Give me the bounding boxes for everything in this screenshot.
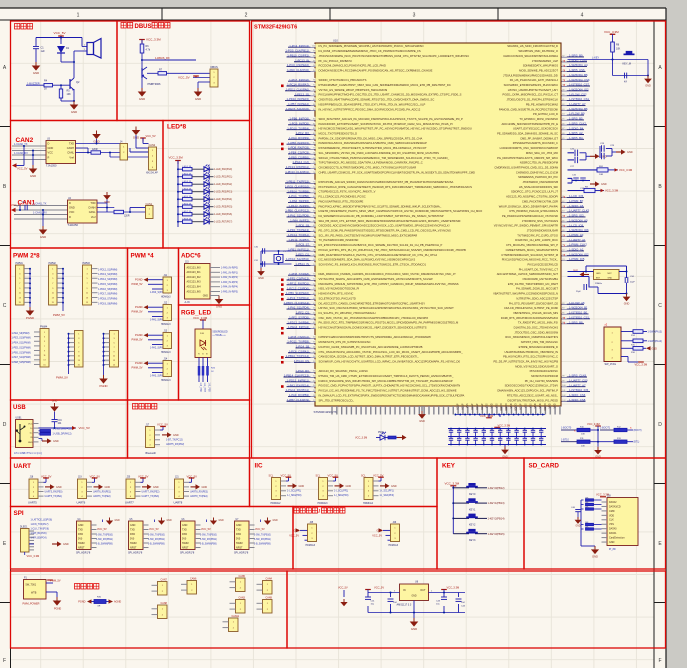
svg-text:RTSJTDI_ADC123I2C_USART_HS_NSS: RTSJTDI_ADC123I2C_USART_HS_NSS_ — [507, 393, 559, 397]
ground bt + labels — [162, 432, 184, 446]
svg-text:1-PC6_CS(PA1): 1-PC6_CS(PA1) — [289, 349, 309, 353]
svg-text:DATA0: DATA0 — [609, 528, 617, 531]
svg-text:D1RCC_NSSLCDPE_NSS_WKUP/JTDID1: D1RCC_NSSLCDPE_NSS_WKUP/JTDID1_SPI_MCO1L… — [319, 379, 453, 383]
svg-text:HDMI1x3: HDMI1x3 — [161, 297, 171, 299]
svg-text:PGND: PGND — [135, 305, 143, 309]
UART group 4: connector + labels — [174, 474, 209, 504]
svg-text:PWM_5V: PWM_5V — [132, 282, 143, 286]
svg-text:C: C — [3, 303, 7, 309]
svg-text:RXD: RXD — [182, 533, 187, 536]
svg-text:1-PE15_S11(PG5): 1-PE15_S11(PG5) — [286, 107, 309, 111]
svg-text:1-SPI_B0(PG4): 1-SPI_B0(PG4) — [31, 538, 47, 540]
svg-text:1-SDIO_CS8: 1-SDIO_CS8 — [569, 398, 586, 402]
svg-text:1-BUZZER: 1-BUZZER — [27, 81, 40, 85]
svg-text:1-SW_TX(PB10): 1-SW_TX(PB10) — [148, 534, 165, 536]
power PWM_5V botleft — [46, 580, 61, 583]
svg-text:CMD_PF_INVBAT_D0DMA_ET: CMD_PF_INVBAT_D0DMA_ET — [520, 136, 558, 140]
PWM*4 group 2: labels + connector — [132, 303, 172, 327]
svg-text:HS/HSYNCPA_RTS_VSYNC: HS/HSYNCPA_RTS_VSYNC — [319, 292, 354, 296]
svg-text:SWIM: SWIM — [182, 542, 189, 545]
IC power entry module — [23, 578, 47, 606]
svg-text:22pF: 22pF — [630, 282, 635, 284]
svg-text:STM32F429IGT6: STM32F429IGT6 — [254, 25, 297, 31]
svg-text:TXPC/TIM/HSCK_PG_MISOD2_SDA/TX: TXPC/TIM/HSCK_PG_MISOD2_SDA/TXPA_ULPI/DM… — [319, 161, 423, 165]
capacitor C44 — [456, 599, 466, 608]
svg-text:SPI: SPI — [14, 510, 24, 517]
svg-text:Bluetooth: Bluetooth — [146, 452, 157, 455]
svg-text:47: 47 — [562, 128, 564, 130]
section title single-point-connect (CJK) — [75, 584, 99, 590]
svg-text:1-PA1_S11(PD9): 1-PA1_S11(PD9) — [288, 214, 309, 218]
svg-text:1-PF10_S12(PD2): 1-PF10_S12(PD2) — [286, 257, 309, 261]
power VCC_5V can2 — [12, 161, 28, 171]
svg-text:57: 57 — [313, 254, 315, 256]
button KEY_M reset — [623, 51, 635, 66]
svg-text:10K: 10K — [616, 48, 621, 51]
svg-text:1-SDIO_CS6: 1-SDIO_CS6 — [569, 393, 586, 397]
svg-text:1-G_PB7: 1-G_PB7 — [203, 383, 205, 393]
svg-text:PWM *4: PWM *4 — [131, 253, 155, 260]
svg-text:1-PE7_S14(PWM): 1-PE7_S14(PWM) — [12, 357, 31, 359]
svg-text:53: 53 — [313, 274, 315, 276]
svg-text:D: D — [658, 422, 662, 428]
svg-text:1-PD10_IN(PE15): 1-PD10_IN(PE15) — [286, 97, 309, 101]
svg-text:VCC_5V: VCC_5V — [149, 528, 159, 531]
svg-text:99: 99 — [562, 380, 564, 382]
section box led8 — [163, 121, 250, 249]
power VCC_3.3M dbus — [139, 38, 161, 44]
svg-text:27: 27 — [313, 400, 315, 402]
svg-text:IN_HSYNC_NJTRST/PFRCC_PE/OSC_D: IN_HSYNC_NJTRST/PFRCC_PE/OSC_DMA_SCKFMC/… — [319, 107, 421, 111]
svg-text:ADC123_IN5: ADC123_IN5 — [187, 290, 202, 293]
svg-text:VCC_5V: VCC_5V — [17, 167, 28, 171]
svg-text:JTDI/ULPISDNWEWKUPMCO1SDANSS_D: JTDI/ULPISDNWEWKUPMCO1SDANSS_D3/ — [503, 73, 558, 77]
svg-text:VSS: VSS — [487, 403, 489, 408]
svg-text:PGND: PGND — [99, 384, 107, 388]
svg-text:GND: GND — [30, 174, 36, 178]
resistor can2 120R — [91, 149, 101, 154]
svg-text:1-LED_PE1(PG1): 1-LED_PE1(PG1) — [214, 177, 232, 179]
svg-text:VCC_5V: VCC_5V — [289, 534, 299, 537]
svg-text:1-PC12_CS(PD0): 1-PC12_CS(PD0) — [287, 286, 309, 290]
svg-text:VCAP: VCAP — [461, 403, 464, 410]
svg-text:89: 89 — [313, 99, 315, 101]
svg-text:CTS/PEADC123_FSTX_VSYNCPC_PAEX: CTS/PEADC123_FSTX_VSYNCPC_PAEXTI_V — [319, 190, 376, 194]
svg-text:CHPD_USARTLCD/MCO1_PF_SCK_USAR: CHPD_USARTLCD/MCO1_PF_SCK_USARTSWDIOPC/P… — [319, 170, 476, 174]
svg-text:32: 32 — [562, 55, 564, 57]
svg-text:PWM_5V: PWM_5V — [132, 366, 143, 370]
svg-text:CK/LCD_PB/CHFSOSC_NJTRST_PE_DC: CK/LCD_PB/CHFSOSC_NJTRST_PE_DCMI — [504, 306, 558, 310]
svg-text:74: 74 — [313, 172, 315, 174]
resistor can1 120R — [114, 210, 130, 217]
power VCC_5V regulator — [365, 585, 384, 592]
svg-text:1-SW_TX(PB10): 1-SW_TX(PB10) — [200, 534, 217, 536]
svg-text:59: 59 — [313, 245, 315, 247]
wire buzzer top rail — [36, 36, 82, 47]
svg-text:HDMI4x4: HDMI4x4 — [363, 502, 374, 505]
svg-text:49: 49 — [313, 293, 315, 295]
wires CAN1 left — [14, 206, 68, 227]
svg-text:ADC*6: ADC*6 — [181, 253, 201, 260]
svg-text:PWM_5V: PWM_5V — [132, 338, 143, 342]
svg-text:OUT: OUT — [420, 589, 426, 592]
svg-text:1-PA0_IN-R(P0): 1-PA0_IN-R(P0) — [221, 267, 238, 270]
svg-text:1-USB_DM(PA11): 1-USB_DM(PA11) — [53, 428, 72, 431]
power VCC_3.3M rgb — [193, 316, 208, 329]
svg-text:1-PC13_IN: 1-PC13_IN — [295, 58, 309, 62]
svg-text:HDMI1x3: HDMI1x3 — [389, 545, 399, 547]
svg-text:GND: GND — [195, 97, 201, 101]
svg-text:SCL: SCL — [361, 474, 366, 477]
svg-text:PB_PE_HSWKUPDCMINJ: PB_PE_HSWKUPDCMINJ — [526, 102, 559, 106]
svg-text:PWR: PWR — [378, 432, 384, 434]
svg-text:37: 37 — [313, 351, 315, 353]
svg-text:GND: GND — [167, 520, 172, 522]
ground MCU bottom-left — [418, 406, 426, 423]
svg-text:HSYNC_SCK_OSC/SCKJTDID0_SPISCK: HSYNC_SCK_OSC/SCKJTDID0_SPISCKADC123PD/S… — [319, 306, 455, 310]
svg-text:KEY_M: KEY_M — [623, 63, 631, 66]
svg-text:1-FLOW_A5: 1-FLOW_A5 — [569, 301, 585, 305]
svg-text:PH_USART_D0_TX/VSYNC_CT: PH_USART_D0_TX/VSYNC_CT — [519, 267, 559, 271]
svg-text:PGND: PGND — [26, 316, 34, 320]
wires CAN1 right — [97, 199, 146, 214]
svg-text:PFCTSSWCLK_RXPE_CANULPI/ETREXT: PFCTSSWCLK_RXPE_CANULPI/ETREXTI_PE/DCMI_… — [319, 185, 473, 189]
svg-text:TXD: TXD — [182, 528, 187, 531]
svg-text:1-PB0_CS(PE6): 1-PB0_CS(PE6) — [289, 155, 309, 159]
power VCC_3.3M spi — [25, 552, 39, 558]
svg-text:GND: GND — [502, 455, 508, 458]
svg-text:CMD_PACKTIM/CK/TIM_D2R: CMD_PACKTIM/CK/TIM_D2R — [522, 199, 558, 203]
svg-text:78: 78 — [313, 152, 315, 154]
svg-text:A-IN: A-IN — [185, 301, 190, 304]
svg-text:95: 95 — [313, 70, 315, 72]
svg-text:SCL: SCL — [316, 474, 321, 477]
svg-text:2: 2 — [245, 13, 248, 19]
svg-text:VCC_5V: VCC_5V — [97, 528, 107, 531]
svg-text:1-LED_PA4(PG4): 1-LED_PA4(PG4) — [214, 198, 232, 201]
svg-text:68: 68 — [313, 201, 315, 203]
SPI group 3: IC + labels — [180, 518, 224, 555]
svg-text:48: 48 — [562, 133, 564, 135]
svg-text:1-FLOW_B9: 1-FLOW_B9 — [569, 112, 585, 116]
svg-text:GND: GND — [153, 486, 159, 489]
svg-text:HDMI1x3: HDMI1x3 — [161, 380, 171, 382]
svg-text:76: 76 — [313, 162, 315, 164]
connector CAN1 header — [146, 203, 154, 219]
svg-text:1-LED_PE3(PG3): 1-LED_PE3(PG3) — [214, 192, 232, 194]
svg-text:1-PD10_TX(PE4): 1-PD10_TX(PE4) — [287, 126, 309, 130]
svg-text:10K: 10K — [581, 434, 585, 436]
svg-text:83: 83 — [562, 303, 564, 305]
svg-text:TX_RXEXTIPC_MCO1_ININ_FS/: TX_RXEXTIPC_MCO1_ININ_FS/ — [518, 321, 558, 325]
svg-text:84: 84 — [313, 123, 315, 125]
ground can1 left — [39, 226, 48, 239]
svg-text:1-SPI5_A2: 1-SPI5_A2 — [569, 131, 583, 135]
svg-text:SDNWESDATX_WKUP/MOS: SDNWESDATX_WKUP/MOS — [523, 64, 558, 68]
svg-text:UART5_RX(PE0): UART5_RX(PE0) — [45, 491, 63, 494]
SPI group 4: IC + labels — [234, 518, 278, 555]
resistors rgb x3 — [198, 358, 216, 383]
svg-text:1-PWM_CLK2: 1-PWM_CLK2 — [569, 243, 587, 247]
LED row 4 (resistor + LED D4) — [177, 195, 232, 202]
svg-text:1-PA3_IN-R(P3): 1-PA3_IN-R(P3) — [221, 281, 238, 284]
wires CAN2 left — [12, 145, 46, 161]
svg-text:GND: GND — [78, 524, 84, 527]
svg-text:VDD: VDD — [540, 403, 542, 408]
svg-text:PB_HSYNC/RX_RTS_SCLCTSSPIVSYNC: PB_HSYNC/RX_RTS_SCLCTSSPIVSYNC_C — [503, 355, 558, 359]
section box buzzer — [11, 21, 118, 121]
svg-text:1-IST8310_IO5: 1-IST8310_IO5 — [569, 388, 589, 392]
svg-text:GND: GND — [33, 71, 39, 75]
svg-text:1-BT_TX(PC12): 1-BT_TX(PC12) — [166, 440, 183, 442]
svg-text:5V0: 5V0 — [182, 537, 187, 540]
svg-text:CANL: CANL — [89, 210, 96, 214]
svg-text:RXD: RXD — [130, 533, 135, 536]
svg-text:1-PD11_CLK(PA0): 1-PD11_CLK(PA0) — [286, 87, 309, 91]
section box usb — [11, 400, 128, 458]
svg-text:PIXCLK_EXTIPG_RTS_PH_PC_WKUP/C: PIXCLK_EXTIPG_RTS_PH_PC_WKUP/CAN_TIM_JTD… — [319, 248, 467, 252]
svg-text:GND: GND — [105, 486, 111, 489]
section title: DJI DBUS remote (CJK+latin) — [121, 23, 133, 29]
svg-text:TXD: TXD — [130, 528, 135, 531]
svg-text:MCO1_TXOTGPESDIO/JTDI_D: MCO1_TXOTGPESDIO/JTDI_D — [319, 132, 358, 136]
svg-text:VSYNC/JTDI_SDAPG_ADC123RTS_CMD: VSYNC/JTDI_SDAPG_ADC123RTS_CMD_HS/PGDMAR… — [319, 277, 434, 281]
svg-text:1-SDIO_A6: 1-SDIO_A6 — [569, 204, 584, 208]
section box adc6 — [179, 248, 250, 305]
svg-text:MISO_SDA_CK_JTDI_MO: MISO_SDA_CK_JTDI_MO — [526, 151, 558, 155]
connector CAN8 terminal — [152, 602, 168, 618]
svg-text:F: F — [3, 658, 6, 664]
svg-text:1-PA4_IN-R(P4): 1-PA4_IN-R(P4) — [221, 286, 238, 289]
svg-text:5050RGBLED: 5050RGBLED — [213, 331, 228, 334]
svg-text:PASDIOSCL/MCO1_FMC/SDA/PH/PA/S: PASDIOSCL/MCO1_FMC/SDA/PH/PA/SWCLK/VBATP… — [319, 141, 427, 145]
svg-text:TJA1050: TJA1050 — [46, 164, 57, 168]
ground can2 right — [132, 127, 141, 140]
svg-text:PGND: PGND — [135, 361, 143, 365]
svg-text:1-PE4_CS(PC9): 1-PE4_CS(PC9) — [288, 151, 309, 155]
svg-text:1-SDIO_CLK6: 1-SDIO_CLK6 — [569, 58, 587, 62]
ground can2 mid — [92, 131, 101, 144]
svg-text:TXD: TXD — [69, 141, 74, 145]
svg-text:5V0: 5V0 — [78, 537, 83, 540]
UART group 1: connector + labels — [28, 474, 63, 504]
svg-text:1-SW_RX(PB11): 1-SW_RX(PB11) — [200, 539, 217, 541]
svg-text:GND: GND — [236, 524, 242, 527]
MCU bottom vertical pin names — [457, 403, 557, 411]
svg-text:IP_8D: IP_8D — [609, 548, 616, 551]
svg-text:UART5_RX(PD2): UART5_RX(PD2) — [166, 443, 184, 446]
svg-text:72: 72 — [562, 249, 564, 251]
IC RGB LED module D10 — [195, 329, 211, 358]
svg-text:120R: 120R — [124, 216, 130, 218]
svg-text:KEY0: KEY0 — [469, 493, 476, 496]
svg-text:33: 33 — [313, 371, 315, 373]
wires CAN2 right — [76, 139, 149, 157]
svg-text:PWM1: PWM1 — [16, 262, 24, 265]
svg-text:UART7_RX(PE2): UART7_RX(PE2) — [142, 491, 160, 494]
svg-text:RCCDCMI_DMASCLSCLPGHSYNCPD_PE_: RCCDCMI_DMASCLSCLPGHSYNCPD_PE_LCD_PH/D — [319, 64, 387, 68]
power VCC_3.3M regulator — [441, 585, 459, 592]
MCU right pin names (interior) — [493, 44, 559, 402]
section box iic — [250, 458, 438, 507]
svg-text:50: 50 — [313, 288, 315, 290]
ground usb shield — [39, 438, 59, 443]
svg-text:VCC_5V: VCC_5V — [372, 534, 382, 537]
svg-text:1-LCD_IO5: 1-LCD_IO5 — [569, 194, 584, 198]
svg-text:ADC123_IN4: ADC123_IN4 — [187, 286, 202, 289]
svg-text:HDMI4x2: HDMI4x2 — [271, 502, 282, 505]
svg-text:1-PA4_IN(PF2): 1-PA4_IN(PF2) — [290, 218, 309, 222]
svg-text:VBATETRSCL_OSCHS_I2C/HS_MIS: VBATETRSCL_OSCHS_I2C/HS_MIS — [513, 311, 558, 315]
svg-text:3: 3 — [413, 13, 416, 19]
section box rgb — [179, 305, 250, 400]
svg-text:1-PA12_IN(PF5): 1-PA12_IN(PF5) — [289, 204, 310, 208]
svg-text:Vref: Vref — [69, 155, 74, 159]
ground reset — [644, 75, 652, 88]
MCU right no-ERC marks — [564, 59, 566, 325]
svg-text:GND: GND — [182, 524, 188, 527]
ground usb top + capacitor C16 — [50, 400, 62, 429]
svg-text:1-PD13_S2(PWM): 1-PD13_S2(PWM) — [98, 274, 118, 276]
svg-text:UART7_TX(PE3): UART7_TX(PE3) — [142, 495, 160, 498]
svg-text:PH_OTG_PE/USART_D0/OSCVBAT_D2: PH_OTG_PE/USART_D0/OSCVBAT_D2 — [509, 301, 559, 305]
power VCC_3.3M key — [445, 482, 460, 534]
svg-text:D1_DCMI_OTGSDNWE/DMADMA/MISO_J: D1_DCMI_OTGSDNWE/DMADMA/MISO_JTDO_CK_PFM… — [319, 49, 421, 53]
svg-text:1-PB11_TX(PF15): 1-PB11_TX(PF15) — [286, 180, 309, 184]
svg-text:1-PC14_RX(PA7): 1-PC14_RX(PA7) — [287, 83, 309, 87]
svg-text:PD_OTG_DCMI_PB_PANSS/PGNSSTXD2: PD_OTG_DCMI_PB_PANSS/PGNSSTXD2/D2_RTS/DC… — [319, 229, 451, 233]
svg-text:UART8_TX(PE4): UART8_TX(PE4) — [190, 495, 208, 498]
connector CAN3 terminal — [230, 597, 246, 613]
IC U4 TJA1050 can1 — [68, 198, 98, 227]
svg-text:93: 93 — [313, 80, 315, 82]
svg-text:85: 85 — [313, 118, 315, 120]
svg-text:1-PE3_S10(PWM): 1-PE3_S10(PWM) — [12, 338, 31, 340]
svg-text:KEY3: KEY3 — [469, 539, 476, 542]
svg-text:1-SWC(PA14): 1-SWC(PA14) — [648, 340, 663, 343]
svg-text:1-IST8310_CS1: 1-IST8310_CS1 — [569, 315, 590, 319]
svg-text:62: 62 — [313, 230, 315, 232]
LED row 5 (resistor + LED D5) — [177, 202, 232, 209]
svg-text:SCKVSYNC_FS_IN/SWCLKCH_RX/D3NS: SCKVSYNC_FS_IN/SWCLKCH_RX/D3NSS_RX/CTS/M… — [319, 262, 427, 266]
svg-text:1-PA3_RX(PE14): 1-PA3_RX(PE14) — [287, 383, 309, 387]
svg-text:FS_PC_SDNWEPE_PFSDNWE_WKUPPH_H: FS_PC_SDNWEPE_PFSDNWE_WKUPPH_HSYNCPDD2PD… — [319, 44, 424, 48]
svg-text:77: 77 — [313, 157, 315, 159]
IC U8 AMS1117-3.3 — [397, 580, 429, 606]
svg-text:R: R — [48, 155, 50, 159]
resistor R5 10K — [59, 85, 74, 101]
svg-text:HSYNC_HS/WKUPRTSCTSUSART_HSY: HSYNC_HS/WKUPRTSCTSUSART_HSY — [508, 88, 558, 92]
svg-text:PIXCLK/D1FMC/CAN_MISO/HS_RCC_T: PIXCLK/D1FMC/CAN_MISO/HS_RCC_TXCK_ — [502, 258, 559, 262]
svg-text:□□*RGB□□□: □□*RGB□□□ — [213, 334, 227, 337]
IIC group 2: connector + labels — [316, 473, 352, 504]
svg-text:52: 52 — [313, 279, 315, 281]
ground vcap — [590, 154, 607, 159]
svg-text:D1HSTIM_D0_OSC_JTDIHSYNCHS: D1HSTIM_D0_OSC_JTDIHSYNCHS — [514, 326, 559, 330]
svg-text:72: 72 — [313, 182, 315, 184]
svg-text:GND: GND — [645, 84, 651, 87]
svg-text:XH2.54_4P: XH2.54_4P — [146, 173, 158, 175]
svg-text:DATA1: DATA1 — [609, 532, 617, 535]
svg-text:1-USB_DP(PA12): 1-USB_DP(PA12) — [53, 433, 72, 436]
svg-text:1-PF0_TX(PE13): 1-PF0_TX(PE13) — [288, 228, 310, 232]
key KEY2: switch + label — [452, 514, 504, 527]
svg-text:SWIM: SWIM — [130, 542, 137, 545]
resistor R6 4.7k — [140, 40, 151, 69]
svg-text:40: 40 — [313, 337, 315, 339]
net label rgb desc — [213, 331, 228, 338]
connector SPI left header — [20, 526, 34, 552]
section title: buzzer (CJK) — [15, 24, 33, 30]
crystal Y1 25MHz group — [568, 266, 636, 295]
svg-text:1-PF14_TX(PA1): 1-PF14_TX(PA1) — [288, 233, 309, 237]
svg-text:1-PA6_S9(PF6): 1-PA6_S9(PF6) — [289, 199, 309, 203]
svg-text:(BOOT): (BOOT) — [634, 430, 642, 432]
svg-text:VDD: VDD — [550, 403, 552, 408]
svg-text:SCL_MISOD0PH_VSYNC_PE_FSD0_LCD: SCL_MISOD0PH_VSYNC_PE_FSD0_LCD/SWCLKSDNW… — [319, 151, 440, 155]
svg-text:GND: GND — [346, 485, 352, 488]
svg-text:SCKSWDIO_ETR/MOSI/PE/FS_PH/CK/: SCKSWDIO_ETR/MOSI/PE/FS_PH/CK/WKU — [504, 83, 558, 87]
svg-text:GND: GND — [69, 206, 75, 210]
svg-text:CANL: CANL — [67, 151, 74, 155]
ground caps bank — [501, 445, 509, 459]
svg-text:SPI_HDR1*8: SPI_HDR1*8 — [180, 551, 195, 554]
svg-text:KEY1: KEY1 — [469, 508, 476, 511]
svg-text:1-PE3_CS: 1-PE3_CS — [296, 252, 309, 256]
svg-text:1-PWM_B7: 1-PWM_B7 — [569, 199, 584, 203]
svg-text:VSS: VSS — [496, 403, 498, 408]
svg-text:FMC/USARTMISO_RTS_JTDOD0PE: FMC/USARTMISO_RTS_JTDOD0PE — [319, 199, 364, 203]
connector PWM header J5 — [16, 262, 31, 305]
svg-text:1-PG7_IN(PG6): 1-PG7_IN(PG6) — [289, 78, 309, 82]
svg-text:U10: U10 — [333, 39, 338, 43]
svg-text:VCC_3.3M: VCC_3.3M — [604, 30, 619, 34]
svg-text:IN: IN — [403, 589, 406, 592]
svg-text:GND: GND — [130, 524, 136, 527]
svg-text:PWM4: PWM4 — [40, 325, 48, 328]
svg-text:1K: 1K — [44, 88, 47, 91]
svg-text:VCC_5V: VCC_5V — [54, 31, 67, 35]
svg-text:HS_NSSLCD/CKSWDIOFS_SDI: HS_NSSLCD/CKSWDIOFS_SDI — [519, 185, 558, 189]
svg-text:1-PB8_IN(PD15): 1-PB8_IN(PD15) — [288, 141, 309, 145]
svg-text:1-PG4_S8: 1-PG4_S8 — [296, 345, 310, 349]
svg-text:PE_PASWCLKPF/SWDIOADC123_VSYNC: PE_PASWCLKPF/SWDIOADC123_VSYNCSD — [502, 214, 558, 218]
svg-text:PIXCLK_I2C_HS_PE/SDNWE_FS_TX_F: PIXCLK_I2C_HS_PE/SDNWE_FS_TX_FMCJTDIHSYN… — [319, 389, 457, 393]
svg-text:1-SDIO_B4: 1-SDIO_B4 — [569, 126, 584, 130]
key KEY1: switch + label — [452, 498, 504, 511]
svg-text:1-PD14_S3(PWM): 1-PD14_S3(PWM) — [98, 279, 118, 281]
svg-text:UART5_TX(PE1): UART5_TX(PE1) — [45, 495, 63, 498]
svg-text:CHSWDIO_D0/HSYNC_D1_D1CM: CHSWDIO_D0/HSYNC_D1_D1CM — [516, 170, 559, 174]
svg-text:VBAT/NJTRST_WKUP/PH_I2CSWDIONS: VBAT/NJTRST_WKUP/PH_I2CSWDIONSSPCNSS_N — [493, 292, 558, 296]
svg-text:VCC_5V: VCC_5V — [201, 528, 211, 531]
svg-text:1-SPI5_IO3: 1-SPI5_IO3 — [569, 214, 584, 218]
svg-text:WTB: WTB — [31, 592, 37, 595]
wire dbus gnd — [198, 82, 210, 88]
power VCC_3.3M top-right — [604, 30, 619, 42]
svg-text:VCC_5V: VCC_5V — [146, 134, 156, 138]
svg-text:SDIO_IN/NJTRST_ADC123_PA_MCO1D: SDIO_IN/NJTRST_ADC123_PA_MCO1D0_FSRXPGPI… — [319, 117, 464, 121]
svg-text:1-PF11_RX(PD1): 1-PF11_RX(PD1) — [287, 281, 309, 285]
svg-text:70: 70 — [562, 240, 564, 242]
svg-text:SWDIO_CTSOTG/MCO1_PB/CAN/CTS: SWDIO_CTSOTG/MCO1_PB/CAN/CTS — [319, 78, 367, 82]
svg-text:92: 92 — [313, 85, 315, 87]
svg-text:43: 43 — [562, 109, 564, 111]
svg-text:1-IST8310_CS1: 1-IST8310_CS1 — [569, 97, 590, 101]
svg-text:GND: GND — [391, 485, 397, 488]
svg-text:1-B_SWIM(PB9): 1-B_SWIM(PB9) — [96, 543, 113, 545]
svg-text:1-SW_RX(PB11): 1-SW_RX(PB11) — [254, 539, 271, 541]
